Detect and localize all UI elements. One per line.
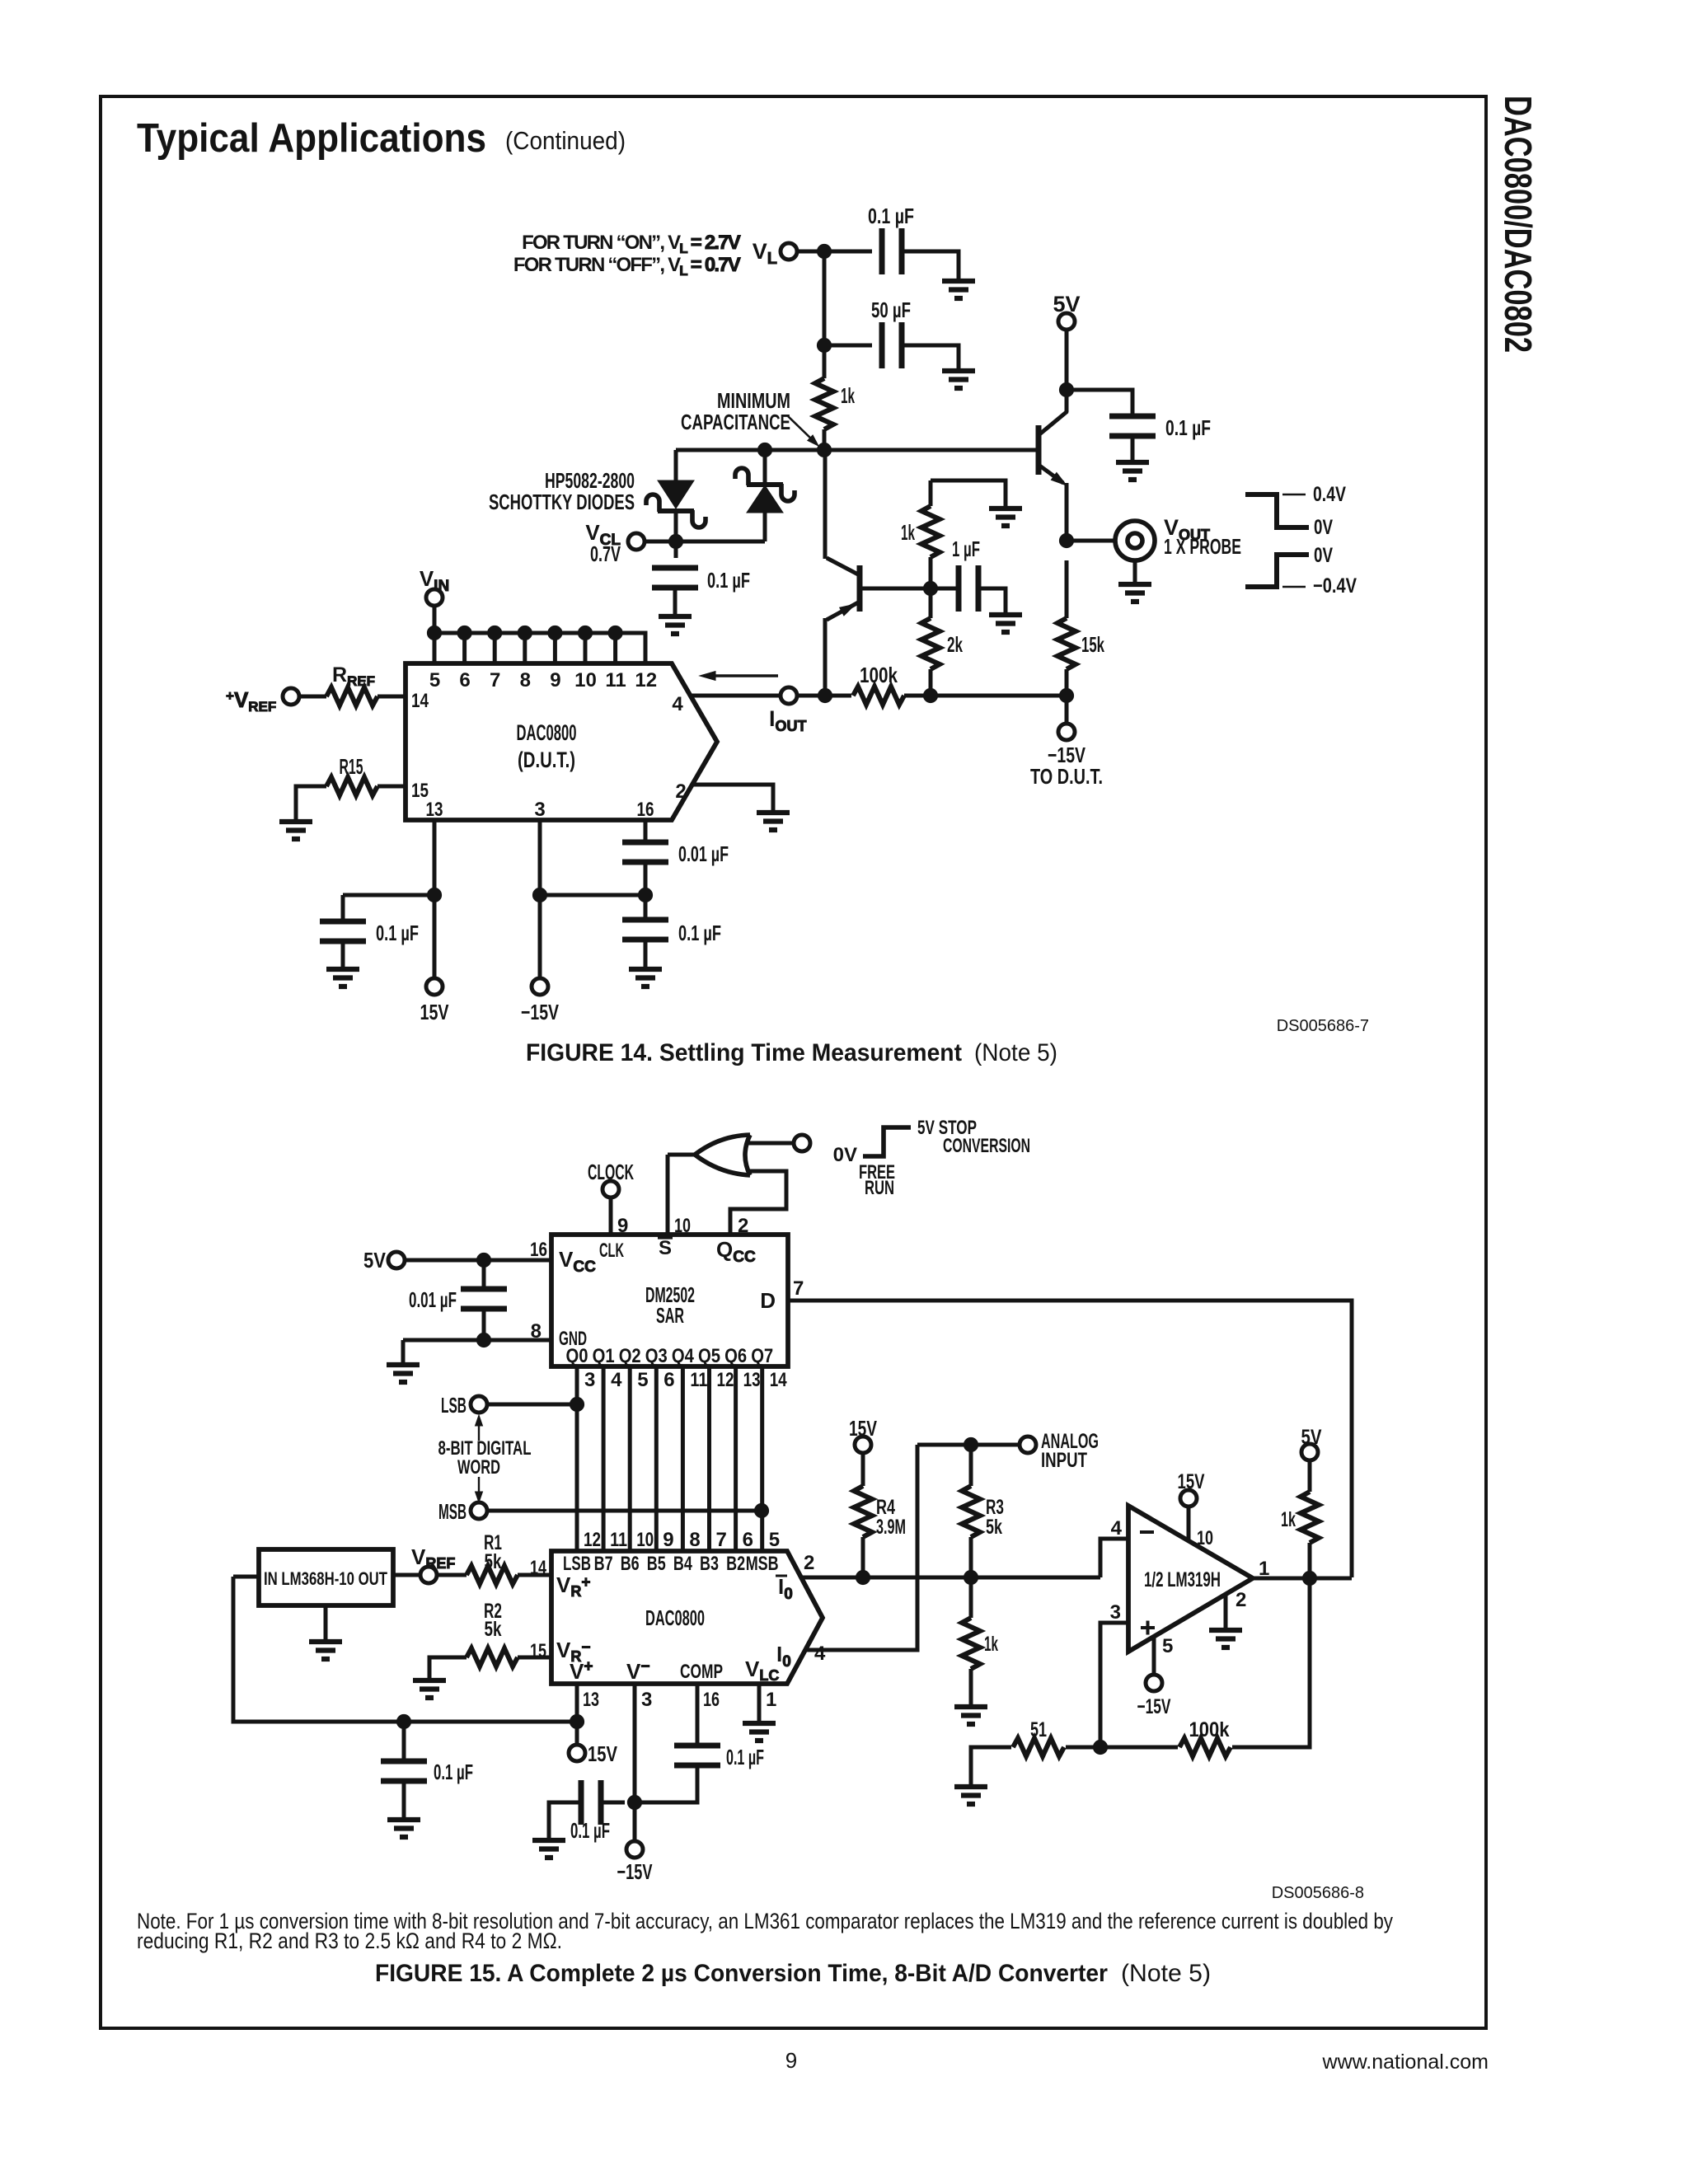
- wire: [805, 1445, 917, 1650]
- terminal 5V (pullup): [1301, 1426, 1322, 1460]
- junction: [627, 1795, 641, 1809]
- terminal IOUT: [769, 687, 807, 734]
- wire: [575, 1722, 579, 1745]
- wire: [405, 1258, 551, 1263]
- svg-text:IN LM368H-10 OUT: IN LM368H-10 OUT: [264, 1568, 387, 1589]
- note text: [137, 1909, 1393, 1953]
- svg-text:14: 14: [770, 1369, 788, 1391]
- svg-text:8: 8: [520, 669, 531, 691]
- svg-text:0.7V: 0.7V: [590, 541, 621, 566]
- wire: [969, 1537, 973, 1577]
- svg-text:0.1 µF: 0.1 µF: [376, 921, 419, 945]
- svg-text:(D.U.T.): (D.U.T.): [518, 748, 575, 772]
- svg-text:11: 11: [690, 1369, 707, 1391]
- junction: [964, 1570, 978, 1584]
- waveform turn-off: [1245, 544, 1357, 598]
- resistor RREF: [326, 663, 377, 705]
- svg-text:DAC0800/DAC0802: DAC0800/DAC0802: [1497, 96, 1540, 353]
- title Typical Applications: [137, 116, 626, 161]
- svg-text:4: 4: [611, 1369, 622, 1391]
- svg-text:−15V: −15V: [617, 1859, 653, 1884]
- svg-text:+VREF: +VREF: [226, 687, 276, 715]
- svg-text:INPUT: INPUT: [1041, 1449, 1087, 1472]
- wire: [233, 1577, 577, 1722]
- wire: [931, 587, 959, 591]
- wire: [788, 1301, 1352, 1577]
- junction: [427, 888, 441, 902]
- wire: [757, 1684, 762, 1722]
- wire: [969, 1445, 973, 1486]
- wire: [296, 786, 326, 819]
- wire: [609, 1197, 613, 1235]
- svg-text:Q5: Q5: [698, 1345, 720, 1367]
- svg-text:0.1 µF: 0.1 µF: [707, 568, 750, 593]
- terminal 15V (R4): [849, 1416, 877, 1453]
- IC U1 DAC0800 (D.U.T.): [406, 663, 717, 820]
- wire: [1253, 1577, 1352, 1581]
- svg-text:SAR: SAR: [656, 1303, 684, 1328]
- svg-text:10: 10: [636, 1529, 654, 1551]
- svg-text:(Continued): (Continued): [505, 126, 626, 155]
- waveform turn-on: [1245, 483, 1346, 539]
- svg-text:FOR TURN “OFF”, VL = 0.7V: FOR TURN “OFF”, VL = 0.7V: [513, 254, 741, 279]
- svg-text:0.01 µF: 0.01 µF: [409, 1287, 457, 1312]
- svg-text:Q0: Q0: [566, 1345, 588, 1367]
- ground: [279, 822, 312, 839]
- wire: [538, 820, 542, 895]
- svg-text:8: 8: [689, 1529, 700, 1551]
- svg-text:D: D: [760, 1288, 776, 1313]
- capacitor C8 0.1uF (pin16): [622, 920, 721, 945]
- junction: [754, 1503, 768, 1517]
- svg-text:5: 5: [429, 669, 440, 691]
- svg-text:Q3: Q3: [645, 1345, 668, 1367]
- wire: [668, 1153, 696, 1157]
- pin number 2 (U3): [804, 1552, 814, 1574]
- svg-text:6: 6: [663, 1369, 674, 1391]
- wire: [343, 893, 434, 898]
- svg-text:−15V: −15V: [1137, 1695, 1171, 1718]
- capacitor C10 0.1uF: [381, 1760, 473, 1784]
- wire: [862, 587, 931, 591]
- wire: [1067, 390, 1132, 416]
- svg-text:Q1: Q1: [593, 1345, 615, 1367]
- wire: [1100, 1539, 1128, 1577]
- svg-text:2: 2: [1236, 1589, 1246, 1611]
- svg-text:16: 16: [530, 1239, 547, 1261]
- ground: [629, 940, 662, 987]
- svg-text:5: 5: [637, 1369, 648, 1391]
- ground: [387, 1781, 420, 1837]
- annotation 8-BIT DIGITAL WORD: [438, 1415, 532, 1502]
- svg-text:−15V: −15V: [521, 1000, 559, 1024]
- svg-text:1/2 LM319H: 1/2 LM319H: [1144, 1568, 1221, 1591]
- pin number 9 (U2): [617, 1215, 628, 1237]
- wire: [402, 1722, 406, 1761]
- junction: [457, 626, 471, 640]
- wire: [929, 557, 933, 618]
- svg-text:VL: VL: [753, 239, 777, 268]
- wire: [1100, 1623, 1128, 1747]
- terminal 5V (SAR Vcc): [363, 1248, 405, 1272]
- svg-text:MSB: MSB: [438, 1499, 467, 1524]
- svg-text:S: S: [659, 1237, 672, 1259]
- svg-text:reducing R1, R2 and R3 to 2.5: reducing R1, R2 and R3 to 2.5 kΩ and R4 …: [137, 1929, 562, 1953]
- svg-text:CLOCK: CLOCK: [588, 1160, 634, 1184]
- wire: [861, 1453, 865, 1486]
- pin number 14 (U1): [411, 690, 429, 712]
- wire: [801, 1576, 1100, 1580]
- svg-text:SCHOTTKY DIODES: SCHOTTKY DIODES: [489, 490, 635, 514]
- resistor 15k: [1057, 618, 1104, 669]
- OR gate G1: [695, 1135, 750, 1175]
- wire: [861, 1537, 865, 1577]
- svg-text:VR+: VR+: [556, 1572, 590, 1600]
- terminal -15V (fig14): [521, 978, 559, 1024]
- wire: [575, 1684, 579, 1722]
- caption FIGURE 15: [375, 1960, 1211, 1987]
- svg-text:100k: 100k: [860, 663, 898, 687]
- svg-text:Q2: Q2: [619, 1345, 641, 1367]
- svg-text:VIN: VIN: [420, 566, 449, 595]
- junction: [923, 688, 937, 702]
- resistor 100k (fig14): [853, 663, 904, 705]
- svg-text:0.4V: 0.4V: [1313, 483, 1346, 506]
- svg-text:WORD: WORD: [457, 1456, 500, 1479]
- svg-text:6: 6: [743, 1529, 753, 1551]
- svg-text:5V: 5V: [1053, 292, 1080, 316]
- annotation MINIMUM CAPACITANCE: [681, 388, 818, 446]
- transistor Q2 (PNP): [825, 450, 860, 696]
- svg-text:0.1 µF: 0.1 µF: [434, 1760, 473, 1784]
- ground: [989, 509, 1022, 526]
- pin number 3 (U1): [534, 799, 545, 821]
- svg-text:FOR TURN “ON”, VL = 2.7V: FOR TURN “ON”, VL = 2.7V: [522, 232, 741, 256]
- IC U4 LM368H-10: [259, 1549, 393, 1605]
- capacitor C1 0.1uF: [868, 204, 914, 274]
- svg-text:2k: 2k: [947, 632, 963, 657]
- pin number 10 (U2): [674, 1215, 691, 1237]
- svg-text:CAPACITANCE: CAPACITANCE: [681, 410, 790, 434]
- resistor 1k (pullup): [1281, 1492, 1319, 1543]
- svg-text:4: 4: [1111, 1517, 1123, 1540]
- wire: [931, 480, 1006, 508]
- ground: [309, 1642, 342, 1659]
- ground: [387, 1365, 420, 1382]
- wire: [482, 1260, 486, 1289]
- wire: [1065, 560, 1069, 618]
- wire: [929, 669, 933, 696]
- svg-text:14: 14: [411, 690, 429, 712]
- junction: [964, 1437, 978, 1451]
- terminal -15V (U5): [1137, 1675, 1171, 1718]
- wire: [341, 895, 345, 921]
- wire: [644, 862, 648, 895]
- caption FIGURE 14: [526, 1039, 1057, 1066]
- svg-text:1k: 1k: [841, 383, 855, 408]
- wire: [823, 429, 827, 450]
- svg-text:15V: 15V: [849, 1416, 877, 1441]
- svg-text:2: 2: [804, 1552, 814, 1574]
- resistor R4 3.9M: [854, 1486, 906, 1539]
- wire: [902, 251, 959, 281]
- pin number 15 (U1): [411, 780, 429, 802]
- svg-text:12: 12: [584, 1529, 601, 1551]
- wire: [540, 893, 645, 898]
- junction: [427, 626, 441, 640]
- capacitor C7 0.01uF: [622, 841, 729, 866]
- wire: [377, 785, 406, 789]
- wire: [299, 695, 326, 699]
- svg-text:FIGURE 15. A Complete 2 µs Con: FIGURE 15. A Complete 2 µs Conversion Ti…: [375, 1960, 1108, 1987]
- svg-text:FIGURE 14. Settling Time Measu: FIGURE 14. Settling Time Measurement: [526, 1039, 962, 1066]
- terminal MSB: [438, 1499, 487, 1524]
- capacitor C5 1uF: [952, 537, 980, 612]
- wire: [823, 251, 827, 345]
- capacitor C3 0.1uF (VCL): [652, 568, 750, 593]
- svg-text:13: 13: [426, 799, 443, 821]
- svg-text:0.1 µF: 0.1 µF: [1165, 415, 1211, 440]
- svg-text:5k: 5k: [485, 1550, 502, 1573]
- wire: [437, 1573, 467, 1577]
- svg-text:VLC: VLC: [745, 1657, 779, 1684]
- wire: [518, 1573, 551, 1577]
- junction: [608, 626, 622, 640]
- svg-text:LSB: LSB: [563, 1553, 591, 1575]
- wire: [824, 344, 872, 348]
- svg-text:12: 12: [717, 1369, 734, 1391]
- data lines Q0-Q7: [577, 1366, 762, 1551]
- svg-text:10: 10: [1197, 1527, 1213, 1549]
- ground: [1209, 1630, 1242, 1647]
- wire: [434, 633, 645, 663]
- capacitor C2 50uF: [871, 298, 911, 368]
- svg-text:14: 14: [530, 1557, 546, 1579]
- annotation FOR TURN ON/OFF: [513, 232, 741, 279]
- IC U3 DAC0800: [551, 1551, 823, 1684]
- wire: [969, 1577, 973, 1618]
- junction: [1093, 1740, 1107, 1754]
- terminal CLOCK: [588, 1160, 634, 1197]
- wire: [487, 1403, 577, 1407]
- junction: [817, 338, 831, 352]
- junction: [1059, 382, 1073, 396]
- pin number 16 (U2): [530, 1239, 547, 1261]
- wire: [518, 1656, 551, 1660]
- wire: [1065, 696, 1069, 723]
- svg-text:1 µF: 1 µF: [952, 537, 980, 561]
- wire: [917, 1443, 1020, 1447]
- svg-text:15k: 15k: [1081, 632, 1104, 657]
- label DS005686-7: [1277, 1017, 1369, 1035]
- resistor R3 5k: [962, 1486, 1004, 1539]
- footer www.national.com: [1322, 2050, 1489, 2074]
- terminal 15V (U3 V+): [569, 1741, 618, 1766]
- wire: [748, 1141, 794, 1146]
- bus stubs to pins 5-12: [434, 633, 616, 663]
- junction: [548, 626, 562, 640]
- svg-text:RREF: RREF: [332, 663, 375, 689]
- svg-text:Q7: Q7: [751, 1345, 773, 1367]
- svg-text:DAC0800: DAC0800: [645, 1605, 705, 1630]
- wire: [971, 1747, 1011, 1785]
- terminal 5V (fig14): [1053, 292, 1080, 330]
- svg-text:5V: 5V: [1301, 1426, 1322, 1449]
- resistor R2 5k: [467, 1600, 518, 1666]
- svg-text:R15: R15: [340, 754, 363, 779]
- wire: [644, 820, 648, 842]
- wire: [233, 1575, 259, 1579]
- junction: [396, 1714, 410, 1728]
- svg-text:B4: B4: [673, 1553, 692, 1575]
- svg-text:RUN: RUN: [865, 1177, 894, 1199]
- terminal +VREF: [226, 687, 299, 715]
- svg-text:15: 15: [530, 1640, 546, 1662]
- terminal 15V (U5): [1178, 1470, 1205, 1507]
- svg-text:11: 11: [610, 1529, 627, 1551]
- wire: [1067, 539, 1114, 543]
- svg-text:(Note 5): (Note 5): [1121, 1960, 1211, 1987]
- svg-text:B6: B6: [621, 1553, 640, 1575]
- junction: [818, 688, 832, 702]
- ground: [942, 371, 975, 388]
- capacitor C4 0.1uF (5V): [1109, 415, 1211, 440]
- junction VOUT node: [1059, 533, 1073, 547]
- wire: [1187, 1507, 1191, 1541]
- resistor 2k: [921, 618, 963, 669]
- svg-text:3: 3: [1110, 1601, 1121, 1624]
- pin numbers 5-12 (U1 top): [429, 669, 657, 691]
- wire: [429, 1657, 467, 1679]
- ground: [532, 1840, 565, 1858]
- wire: [487, 1509, 762, 1513]
- svg-text:15V: 15V: [1178, 1470, 1205, 1493]
- svg-text:1: 1: [1259, 1558, 1269, 1580]
- transistor Q1 (NPN): [1039, 390, 1067, 541]
- ground: [743, 1723, 776, 1741]
- svg-text:10: 10: [574, 669, 597, 691]
- pin number 15 (U3): [530, 1640, 546, 1662]
- svg-text:B2: B2: [726, 1553, 745, 1575]
- junction: [476, 1333, 490, 1347]
- junction: [668, 534, 682, 548]
- svg-text:15V: 15V: [420, 1000, 449, 1024]
- svg-text:DS005686-8: DS005686-8: [1272, 1884, 1364, 1902]
- pin number 1 (U5): [1259, 1558, 1269, 1580]
- terminal -15V (U3): [617, 1841, 653, 1884]
- wire: [666, 1155, 670, 1235]
- diode D2 HP5082-2800 (up): [735, 450, 795, 541]
- junction Q2 base node: [923, 581, 937, 595]
- waveform stop conversion: [833, 1117, 1030, 1199]
- wire: [538, 895, 542, 977]
- svg-text:IOUT: IOUT: [769, 706, 807, 734]
- wire: [1232, 1578, 1310, 1747]
- pin number 5 (U5): [1162, 1635, 1173, 1657]
- resistor R1 5k: [467, 1531, 518, 1584]
- wire: [403, 1338, 551, 1343]
- svg-text:0V: 0V: [1314, 544, 1333, 567]
- svg-text:5k: 5k: [986, 1516, 1002, 1539]
- svg-text:16: 16: [637, 799, 654, 821]
- wire: [644, 895, 648, 920]
- svg-text:www.national.com: www.national.com: [1322, 2050, 1489, 2074]
- svg-text:Typical Applications: Typical Applications: [137, 116, 486, 161]
- page border frame: [101, 96, 1486, 2028]
- junction minimum capacitance node: [817, 443, 831, 457]
- svg-text:Q6: Q6: [724, 1345, 747, 1367]
- pin number 3 (U3): [641, 1689, 652, 1711]
- pin numbers 12,11,10,9,8,7,6,5 (U3 top): [584, 1529, 780, 1551]
- label DS005686-8: [1272, 1884, 1364, 1902]
- wire: [904, 694, 1067, 698]
- svg-text:1: 1: [766, 1689, 776, 1711]
- svg-text:I0: I0: [776, 1642, 791, 1671]
- junction: [757, 443, 771, 457]
- wire: [433, 606, 437, 633]
- svg-text:2: 2: [675, 780, 686, 803]
- svg-text:5V: 5V: [363, 1248, 387, 1272]
- junction: [476, 1253, 490, 1267]
- ground: [1118, 561, 1151, 602]
- resistor 51: [1013, 1718, 1064, 1756]
- svg-text:7: 7: [490, 669, 500, 691]
- terminal -15V TO D.U.T.: [1030, 724, 1103, 789]
- svg-text:7: 7: [716, 1529, 727, 1551]
- svg-text:TO D.U.T.: TO D.U.T.: [1030, 764, 1103, 789]
- annotation HP5082-2800 SCHOTTKY DIODES: [489, 468, 635, 514]
- svg-text:(Note 5): (Note 5): [974, 1039, 1057, 1066]
- pin number 4 (U3): [814, 1643, 826, 1665]
- capacitor C6 0.1uF (15V): [320, 921, 419, 945]
- svg-text:9: 9: [550, 669, 560, 691]
- svg-text:50 µF: 50 µF: [871, 298, 911, 322]
- wire: [969, 1669, 973, 1705]
- terminal VREF: [411, 1544, 455, 1583]
- svg-text:0.1 µF: 0.1 µF: [868, 204, 914, 228]
- IC U2 DM2502 SAR: [551, 1235, 788, 1367]
- pin number 1 (U3): [766, 1689, 776, 1711]
- ground: [1116, 436, 1149, 480]
- junction: [518, 626, 532, 640]
- terminal VCL 0.7V: [585, 520, 645, 566]
- wire: [823, 345, 827, 378]
- svg-text:12: 12: [635, 669, 657, 691]
- diode D1 HP5082-2800 (down): [646, 450, 706, 541]
- ground: [413, 1680, 446, 1698]
- page number: [785, 2048, 797, 2073]
- resistor 1k (ladder): [962, 1618, 998, 1669]
- svg-text:CLK: CLK: [599, 1240, 624, 1262]
- svg-text:5: 5: [1162, 1635, 1173, 1657]
- svg-text:16: 16: [703, 1689, 720, 1711]
- svg-text:51: 51: [1030, 1718, 1047, 1741]
- svg-text:15V: 15V: [588, 1741, 618, 1766]
- wire: [549, 1802, 581, 1839]
- svg-text:1 X PROBE: 1 X PROBE: [1164, 534, 1241, 559]
- svg-text:13: 13: [583, 1689, 599, 1711]
- terminal ANALOG INPUT: [1020, 1430, 1099, 1472]
- svg-text:VREF: VREF: [411, 1544, 455, 1572]
- ground: [659, 588, 692, 634]
- svg-text:4: 4: [672, 693, 683, 715]
- ground: [954, 1707, 987, 1724]
- svg-text:0.1 µF: 0.1 µF: [678, 921, 721, 945]
- svg-text:6: 6: [459, 669, 470, 691]
- wire: [692, 694, 781, 698]
- svg-text:−0.4V: −0.4V: [1313, 574, 1357, 598]
- svg-text:7: 7: [793, 1277, 804, 1300]
